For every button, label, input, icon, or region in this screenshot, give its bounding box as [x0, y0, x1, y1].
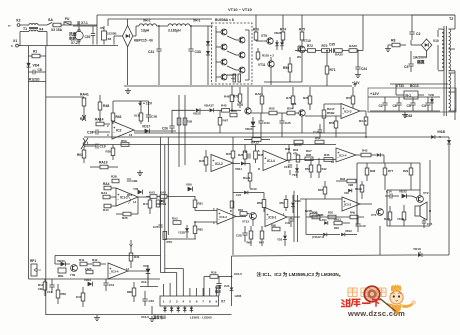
- svg-text:RA15: RA15: [294, 143, 302, 147]
- svg-text:C8: C8: [243, 150, 247, 154]
- svg-text:VD4: VD4: [33, 64, 40, 68]
- resistor R81: [193, 196, 203, 211]
- svg-text:R1B: R1B: [318, 188, 323, 192]
- resistor R70: [322, 44, 332, 52]
- svg-text:VT1: VT1: [371, 213, 377, 217]
- svg-text:C26: C26: [162, 127, 168, 131]
- op-amp IC2-4: [331, 148, 356, 164]
- capacitor C35: [329, 43, 335, 53]
- resistor RA41: [46, 93, 89, 119]
- svg-text:VT2: VT2: [423, 191, 429, 195]
- inductor 3.192uH: [168, 19, 213, 33]
- box regulator outline: [368, 88, 456, 112]
- capacitor C33: [188, 25, 200, 85]
- wire amp bottom: [387, 225, 430, 227]
- resistor R39: [383, 206, 392, 226]
- resistor R48: [98, 95, 109, 122]
- wire bottom rail: [46, 314, 232, 316]
- svg-text:6: 6: [196, 300, 198, 304]
- wire riser X10-5: [231, 256, 233, 306]
- regulator IC4 and diode V2D: [396, 84, 435, 111]
- wire connector feeds: [164, 279, 184, 288]
- resistor R57: [346, 87, 355, 108]
- svg-text:KA2: KA2: [160, 191, 166, 195]
- resistor R80: [271, 224, 280, 231]
- capacitor C17: [313, 124, 322, 137]
- transistor VT6: [291, 102, 305, 116]
- svg-text:R32: R32: [340, 177, 346, 181]
- svg-text:X2: X2: [16, 19, 21, 23]
- terminal X1 wire: [11, 39, 118, 48]
- svg-text:+ 12V: + 12V: [143, 102, 153, 106]
- capacitor C31: [148, 25, 162, 85]
- box output transistors: [212, 18, 253, 84]
- mark: [128, 196, 131, 204]
- wire +12V feed row: [55, 255, 161, 257]
- wire stubs to bus: [248, 87, 336, 137]
- svg-text:R1B: R1B: [187, 120, 193, 124]
- resistor R79c: [163, 232, 172, 245]
- svg-text:R25: R25: [122, 216, 128, 220]
- transistor VT12: [242, 213, 256, 226]
- svg-text:C2B: C2B: [236, 234, 242, 238]
- wire bundle to pins: [161, 269, 184, 280]
- svg-text:(V1b12-14: (V1b12-14: [312, 235, 325, 239]
- resistor R53: [121, 139, 129, 147]
- svg-text:1A/200V: 1A/200V: [413, 56, 427, 60]
- svg-text:T1: T1: [23, 27, 27, 31]
- svg-text:2: 2: [169, 300, 171, 304]
- svg-text:C34: C34: [264, 121, 270, 125]
- svg-text:R42: R42: [92, 258, 98, 262]
- svg-text:VT10 ~ VT19: VT10 ~ VT19: [228, 7, 252, 12]
- svg-text:VT11: VT11: [258, 63, 266, 67]
- speaker B: [415, 202, 432, 220]
- svg-text:R17: R17: [143, 202, 149, 206]
- svg-text:L806: L806: [235, 294, 242, 298]
- terminal X2: [8, 19, 29, 28]
- svg-text:IC2-2: IC2-2: [215, 162, 223, 166]
- diode VD5: [186, 183, 192, 192]
- svg-text:C3B: C3B: [151, 115, 158, 119]
- wire VT1 emitter down: [379, 226, 381, 255]
- svg-text:RA4: RA4: [103, 182, 110, 186]
- svg-text:R33: R33: [334, 226, 339, 230]
- svg-text:X7: X7: [221, 300, 225, 304]
- svg-text:R: R: [230, 209, 232, 213]
- resistor R13: [38, 279, 47, 296]
- diode VD19: [408, 247, 449, 257]
- svg-text:RA13: RA13: [251, 141, 259, 145]
- svg-text:KBPC15 - 06: KBPC15 - 06: [134, 38, 153, 42]
- bridge rectifier VD8: [421, 39, 439, 51]
- svg-text:C6: C6: [393, 104, 397, 108]
- svg-text:V2B: V2B: [348, 183, 353, 187]
- capacitor C14: [385, 190, 399, 199]
- svg-text:7: 7: [202, 300, 204, 304]
- resistor RA13: [244, 138, 270, 145]
- svg-text:IC1-4: IC1-4: [267, 159, 275, 163]
- resistor R50b: [280, 195, 288, 211]
- watermark dzsc: [348, 288, 357, 297]
- resistor R35: [254, 145, 264, 164]
- svg-text:VDA37: VDA37: [204, 104, 214, 108]
- wire driver bottom: [264, 81, 302, 83]
- diode VD3: [143, 264, 150, 279]
- transistor VT2: [412, 191, 429, 202]
- op-amp IC1-2: [116, 188, 150, 206]
- svg-text:KA3: KA3: [149, 191, 155, 195]
- wire: [157, 25, 168, 27]
- resistors R38b R20 R46: [306, 211, 364, 219]
- resistor R63: [230, 109, 237, 117]
- transformer T2 secondary upper: [449, 15, 455, 71]
- svg-text:N-1: N-1: [406, 94, 412, 98]
- resistor RA1: [101, 191, 116, 199]
- svg-text:a~: a~: [8, 24, 12, 28]
- resistor R72: [295, 44, 321, 52]
- label X10-0: [141, 315, 149, 319]
- ground 2: [94, 315, 100, 321]
- svg-text:R6b: R6b: [257, 201, 263, 205]
- wire bus C: [167, 137, 169, 235]
- op-amp IC2-1: [107, 121, 134, 139]
- diode VDA37: [200, 104, 217, 113]
- resistor RA14: [95, 118, 110, 126]
- resistor R77: [383, 163, 393, 190]
- wire drop: [107, 19, 109, 26]
- svg-text:R19: R19: [211, 271, 217, 275]
- svg-text:R70: R70: [322, 44, 328, 48]
- annotation ICs: [257, 271, 344, 278]
- resistor R10: [204, 271, 232, 279]
- svg-text:VT33: VT33: [396, 84, 404, 88]
- transistor VT15: [216, 74, 227, 80]
- resistor RA16: [359, 111, 368, 138]
- diodes 1N4000: [227, 73, 241, 82]
- capacitor C36: [355, 50, 367, 78]
- diode VD18: [431, 130, 449, 139]
- diode VD34: [377, 153, 384, 163]
- svg-text:VT10: VT10: [303, 39, 311, 43]
- wire mid bus 1: [134, 132, 366, 134]
- resistor R18b: [156, 200, 166, 207]
- wire emitter bus: [215, 26, 217, 82]
- capacitor C19: [84, 143, 106, 148]
- capacitor C40: [285, 217, 294, 227]
- svg-text:C17: C17: [313, 130, 319, 134]
- resistor R2: [29, 78, 46, 82]
- resistor R66: [257, 193, 266, 213]
- svg-text:BO13: BO13: [410, 84, 419, 88]
- resistor R50: [283, 57, 292, 82]
- wire right rail x449: [447, 137, 451, 255]
- svg-text:VT9: VT9: [261, 34, 267, 38]
- resistor R43b: [85, 267, 93, 274]
- ground: [385, 45, 391, 52]
- resistor R26b: [238, 145, 247, 165]
- svg-text:温度指示: 温度指示: [153, 315, 167, 320]
- capacitor C28: [236, 226, 248, 242]
- capacitor C28: [127, 179, 138, 183]
- resistor R42: [92, 258, 106, 266]
- svg-text:RA1: RA1: [101, 191, 107, 195]
- svg-text:R50: R50: [315, 136, 321, 140]
- svg-text:R84: R84: [238, 208, 243, 212]
- svg-text:R51B: R51B: [327, 111, 335, 115]
- svg-text:R26: R26: [303, 96, 309, 100]
- svg-text:YD10: YD10: [250, 187, 258, 191]
- svg-text:2J2/3B: 2J2/3B: [107, 32, 116, 36]
- capacitor C34: [258, 113, 270, 132]
- svg-text:10k: 10k: [38, 287, 43, 291]
- svg-text:VD25: VD25: [193, 112, 201, 116]
- svg-text:SA: SA: [48, 18, 53, 22]
- thermistor RT: [81, 138, 89, 149]
- svg-text:R79: R79: [286, 96, 292, 100]
- power +12V arrow: [352, 81, 360, 87]
- potentiometer RP1: [30, 259, 41, 276]
- svg-text:VD12: VD12: [345, 229, 352, 233]
- wire left bus A down: [28, 46, 30, 279]
- capacitor C1: [379, 97, 388, 111]
- resistor R26c: [199, 150, 208, 172]
- capacitor C3: [404, 40, 427, 72]
- svg-text:R1(2)Ω: R1(2)Ω: [29, 78, 40, 82]
- resistor R32: [336, 177, 356, 187]
- capacitor C25: [279, 113, 291, 132]
- svg-text:C22: C22: [236, 193, 241, 197]
- resistor RA19: [90, 161, 118, 169]
- ground: [149, 306, 155, 322]
- resistor R14: [103, 204, 116, 212]
- op-amp IC3-3: [300, 197, 372, 211]
- svg-text:IC2: IC2: [116, 129, 122, 133]
- svg-text:LED01 - LED05: LED01 - LED05: [190, 316, 212, 320]
- svg-text:R14: R14: [103, 208, 109, 212]
- svg-text:R30: R30: [306, 153, 312, 157]
- svg-text:风扇: 风扇: [69, 32, 77, 37]
- label fan motor: [69, 20, 88, 41]
- svg-text:RP1: RP1: [30, 259, 36, 263]
- resistor R02: [293, 148, 300, 162]
- svg-text:X1B: X1B: [134, 114, 141, 118]
- ground 3: [137, 170, 143, 176]
- capacitor C24: [204, 277, 230, 297]
- svg-text:C1: C1: [379, 104, 383, 108]
- transformer T2 secondary lower: [449, 71, 455, 111]
- svg-text:C3: C3: [404, 65, 408, 69]
- LED6: [215, 285, 242, 299]
- wire R82 bottom: [165, 238, 196, 240]
- svg-text:VD6: VD6: [186, 183, 192, 187]
- svg-text:运 X7-1: 运 X7-1: [77, 20, 88, 25]
- svg-text:C2B: C2B: [132, 179, 138, 183]
- svg-text:V18: V18: [344, 191, 349, 195]
- svg-text:C5: C5: [407, 104, 411, 108]
- svg-text:R8: R8: [391, 39, 395, 43]
- svg-text:N-D14: N-D14: [319, 218, 327, 222]
- trimmer R47: [80, 115, 86, 121]
- resistor R26: [303, 87, 312, 110]
- wire right block: [429, 160, 431, 226]
- svg-text:R26: R26: [199, 159, 205, 163]
- wire bridge to filter: [128, 19, 139, 36]
- resistor R38: [365, 163, 375, 181]
- wire bus A: [160, 137, 162, 273]
- capacitor C27: [153, 225, 163, 229]
- svg-text:K47: K47: [76, 295, 82, 299]
- svg-text:R71: R71: [330, 68, 336, 72]
- wire stub: [54, 256, 56, 265]
- resistor R28: [111, 175, 119, 183]
- svg-text:X3 15A: X3 15A: [51, 28, 63, 32]
- svg-text:R47: R47: [223, 119, 229, 123]
- wire bottom right rail: [232, 255, 409, 256]
- svg-text:R41: R41: [79, 258, 85, 262]
- op-amp IC3-1: [265, 208, 300, 227]
- svg-text:VD24: VD24: [245, 127, 253, 131]
- transistor VT11: [258, 57, 274, 85]
- svg-text:C2: C2: [416, 32, 420, 36]
- resistor R74: [280, 15, 286, 44]
- diode VD6: [133, 187, 142, 194]
- resistor RA24: [255, 87, 264, 113]
- svg-text:RA14: RA14: [95, 118, 104, 122]
- label R16: [127, 193, 133, 197]
- svg-text:C40: C40: [285, 221, 291, 225]
- svg-text:X1: X1: [13, 39, 17, 43]
- diode VD21: [277, 231, 287, 246]
- LEDs LED1-LED5: [163, 306, 193, 313]
- capacitor C8: [243, 150, 250, 159]
- resistor R41: [79, 258, 92, 266]
- resistor R37 on drop wire: [226, 137, 235, 255]
- capacitor C15: [422, 218, 433, 228]
- svg-text:RA2C: RA2C: [349, 44, 358, 48]
- svg-text:R103 × 2: R103 × 2: [262, 54, 274, 58]
- switch SA: [38, 18, 53, 46]
- diode VD17: [134, 125, 176, 134]
- svg-text:8: 8: [209, 300, 211, 304]
- resistor R71: [325, 50, 336, 86]
- resistor R59: [56, 284, 66, 304]
- svg-text:C30: C30: [85, 35, 91, 39]
- svg-text:R28: R28: [111, 175, 117, 179]
- wire cluster verticals: [294, 191, 298, 242]
- resistor R52: [251, 107, 287, 115]
- svg-text:V07: V07: [156, 202, 161, 206]
- wire collector bus: [245, 30, 249, 80]
- resistor R17: [143, 197, 152, 214]
- svg-text:C10: C10: [109, 283, 115, 287]
- svg-text:R42: R42: [322, 167, 327, 171]
- wire reg gnd rail: [370, 111, 440, 118]
- resistor R52b: [305, 158, 313, 178]
- svg-text:R53: R53: [121, 139, 127, 143]
- wire bridge in/out: [114, 36, 128, 85]
- svg-text:RA19: RA19: [99, 161, 108, 165]
- resistor R1: [29, 50, 46, 58]
- svg-text:YD3: YD3: [277, 238, 283, 242]
- svg-text:R48: R48: [103, 104, 109, 108]
- capacitor C8: [29, 68, 46, 74]
- svg-text:R3B: R3B: [318, 213, 323, 217]
- svg-text:3: 3: [176, 300, 178, 304]
- svg-text:5: 5: [189, 300, 191, 304]
- svg-text:R02: R02: [77, 153, 83, 157]
- resistor RA25: [335, 49, 349, 57]
- wire T2 primary: [437, 30, 439, 70]
- svg-text:IC3-3: IC3-3: [344, 203, 352, 207]
- svg-text:R: R: [258, 167, 260, 171]
- capacitor C11: [47, 279, 55, 294]
- resistor R103: [256, 48, 274, 61]
- resistor RA10: [355, 181, 364, 199]
- diode VD4b: [292, 164, 299, 178]
- resistor R19: [134, 101, 143, 124]
- resistor R88: [127, 282, 136, 302]
- svg-text:R16: R16: [127, 193, 133, 197]
- wire: [29, 278, 34, 280]
- svg-text:4: 4: [183, 300, 185, 304]
- resistor R48b: [224, 86, 234, 111]
- resistor R54: [287, 107, 299, 115]
- svg-text:VD11: VD11: [235, 167, 242, 171]
- svg-text:YD19: YD19: [413, 247, 421, 251]
- zener VD4: [26, 63, 39, 68]
- diode VD22: [178, 225, 189, 238]
- resistor R65: [247, 226, 253, 246]
- svg-text:Y2D: Y2D: [428, 93, 435, 97]
- capacitor C5: [407, 97, 416, 111]
- resistors RA15 R50: [294, 136, 324, 147]
- resistor R42: [285, 145, 291, 164]
- diode VD11: [235, 162, 250, 172]
- svg-text:RA20: RA20: [243, 176, 251, 180]
- svg-text:XR-1: XR-1: [193, 19, 201, 23]
- resistor R109: [397, 205, 406, 226]
- diode VD6b: [291, 195, 301, 213]
- resistor RA7: [305, 149, 313, 161]
- diodes VD28 VD29: [206, 26, 210, 85]
- diode VD31: [84, 278, 92, 286]
- op-amp IC1-4: [258, 149, 287, 171]
- zener VD24: [245, 117, 255, 132]
- wire amp top: [387, 190, 420, 226]
- svg-text:C13: C13: [361, 224, 366, 228]
- op-amp IC3-4: [108, 263, 148, 279]
- svg-text:C19: C19: [100, 145, 106, 149]
- wire: [412, 14, 455, 16]
- power +12V: [113, 101, 153, 106]
- svg-text:X5: X5: [100, 26, 104, 30]
- svg-text:BU508A × 8: BU508A × 8: [215, 18, 234, 22]
- capacitor C13: [355, 217, 366, 232]
- resistor RA2: [349, 15, 363, 52]
- wire mid bus 2: [84, 136, 433, 138]
- connector X7: [160, 296, 219, 306]
- svg-text:C33: C33: [195, 50, 201, 54]
- svg-text:R55: R55: [106, 150, 112, 154]
- svg-text:13μH: 13μH: [141, 29, 150, 33]
- svg-text:IC3-1: IC3-1: [269, 216, 277, 220]
- svg-text:X6: X6: [108, 37, 112, 41]
- svg-text:X7-2: X7-2: [71, 41, 78, 45]
- label X10-5: [231, 272, 243, 277]
- svg-text:XR-2: XR-2: [143, 19, 151, 23]
- resistor R67: [259, 226, 265, 246]
